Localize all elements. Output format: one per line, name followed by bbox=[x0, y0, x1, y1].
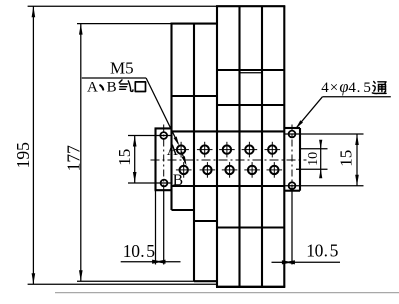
hanzi qi (air) bbox=[119, 80, 133, 92]
svg-text:A: A bbox=[87, 79, 98, 95]
thin double line below divider middle column bbox=[240, 72, 263, 74]
plate left edge extension down bbox=[155, 190, 157, 264]
left 10.5 dimension line left part bbox=[121, 261, 155, 263]
arrowhead left15 bottom bbox=[133, 172, 137, 183]
arrowhead 177 bottom bbox=[79, 270, 83, 281]
station2 bottom y=281.2 bbox=[194, 280, 217, 282]
plate horizontal centerline bbox=[151, 159, 307, 161]
leader to port B bbox=[182, 152, 186, 164]
base plate bottom-right edge bbox=[284, 190, 300, 192]
station1/2 boundary vertical bbox=[193, 24, 195, 282]
base plate left edge bbox=[154, 128, 156, 190]
right 15 extension bottom through hole bbox=[285, 185, 364, 187]
phi4.5 label underline bbox=[322, 96, 390, 98]
port A1 bbox=[173, 142, 189, 158]
svg-text:15: 15 bbox=[115, 149, 134, 166]
valve bodies rear edge y=186 bbox=[172, 185, 285, 187]
stations 1-2 top edge bbox=[171, 23, 219, 25]
M5 label underline bbox=[82, 77, 146, 79]
arrowhead 177 top bbox=[79, 24, 83, 35]
valve bodies front edge y=131.4 bbox=[172, 130, 285, 132]
port B5 bbox=[267, 162, 283, 178]
hanzi tong (through) bbox=[372, 82, 386, 94]
faint sheet border line bbox=[55, 292, 399, 294]
svg-text:B: B bbox=[173, 172, 183, 189]
stations 1-2 divider y=96 bbox=[172, 95, 218, 97]
dimension line 177 bbox=[80, 24, 82, 282]
svg-text:10.5: 10.5 bbox=[306, 240, 338, 260]
right 10 extension A row bbox=[301, 148, 328, 150]
port B3 bbox=[222, 162, 238, 178]
left 15 extension bottom through hole bbox=[128, 182, 172, 184]
svg-text:B: B bbox=[107, 79, 117, 95]
arrowhead left10.5 left bbox=[155, 260, 166, 264]
station1 left edge vertical bbox=[170, 24, 172, 210]
arrowhead 195 top bbox=[32, 6, 36, 17]
stack right edge vertical x=284.3 bbox=[283, 6, 285, 287]
right 15 dimension line bbox=[356, 134, 358, 186]
leader to corner hole bbox=[297, 97, 323, 128]
corner hole top-left bbox=[160, 132, 167, 139]
right 10.5 dimension line left part bbox=[272, 261, 284, 263]
leader to port A bbox=[146, 78, 178, 144]
corner hole top-right bbox=[289, 131, 296, 138]
ideographic comma in label bbox=[100, 85, 103, 89]
stack divider y=105 bbox=[217, 104, 284, 106]
right holes vertical centerline bbox=[291, 125, 293, 191]
station boundary vertical x=239.5 bbox=[238, 6, 240, 287]
arrowhead right15 top bbox=[355, 134, 359, 145]
stack divider y=70 bbox=[217, 69, 284, 71]
port B4 bbox=[244, 162, 260, 178]
left holes vertical centerline bbox=[163, 125, 165, 191]
right holes centerline extension down bbox=[291, 191, 293, 265]
arrowhead leader hole bbox=[294, 120, 303, 129]
port B1 bbox=[176, 162, 192, 178]
valve stack stations 3-5 outline top edge bbox=[216, 5, 285, 7]
left 15 extension top through hole bbox=[128, 135, 172, 137]
arrowhead right15 bottom bbox=[355, 175, 359, 186]
left 15 dimension line bbox=[134, 136, 136, 184]
svg-text:195: 195 bbox=[13, 142, 33, 169]
arrowhead 195 bottom bbox=[32, 273, 36, 284]
arrowhead right10 bottom bbox=[319, 169, 322, 179]
svg-text:4×φ4.5: 4×φ4.5 bbox=[321, 77, 371, 96]
corner hole bottom-right bbox=[289, 182, 296, 189]
extension line bottom for 177 bbox=[77, 280, 194, 282]
station2 divider y=221 bbox=[194, 220, 217, 222]
stack divider y=227.5 bbox=[217, 226, 284, 228]
stack bottom edge bbox=[216, 286, 285, 288]
port A3 bbox=[219, 142, 235, 158]
left 10.5 dimension line right part bbox=[163, 261, 181, 263]
base plate top-left edge bbox=[155, 127, 172, 129]
arrowhead right10.5 right bbox=[282, 260, 293, 264]
base plate top-right edge bbox=[284, 127, 300, 129]
arrowhead leader A bbox=[174, 136, 181, 146]
svg-text:A: A bbox=[167, 142, 179, 159]
station boundary vertical x=217 bbox=[216, 6, 218, 287]
arrowhead leader B bbox=[182, 156, 188, 166]
port B2 bbox=[200, 162, 216, 178]
port A4 bbox=[242, 142, 258, 158]
right 10 extension B row bbox=[296, 168, 328, 170]
arrowhead right10 top bbox=[319, 140, 322, 150]
extension line bottom for 195 bbox=[28, 283, 217, 285]
station boundary vertical x=262 bbox=[261, 6, 263, 287]
dimension line 195 bbox=[32, 6, 34, 284]
svg-text:177: 177 bbox=[64, 145, 84, 172]
right 15 extension top through hole bbox=[285, 133, 364, 135]
arrowhead left10.5 right bbox=[152, 260, 163, 264]
extension line top for 177 bbox=[77, 23, 172, 25]
left holes centerline extension down bbox=[163, 190, 165, 265]
base plate bottom-left edge bbox=[155, 189, 172, 191]
right 10.5 dimension line right part bbox=[293, 261, 340, 263]
arrowhead right10.5 left bbox=[284, 260, 295, 264]
arrowhead left15 top bbox=[133, 136, 137, 147]
hanzi kou (mouth/port) bbox=[135, 82, 145, 92]
svg-text:15: 15 bbox=[337, 150, 356, 167]
port A2 bbox=[197, 142, 213, 158]
extension line top for 195 bbox=[28, 5, 216, 7]
right 10 dimension line bbox=[320, 141, 322, 178]
base plate right edge bbox=[299, 128, 301, 191]
port A5 bbox=[265, 142, 281, 158]
svg-text:10: 10 bbox=[306, 152, 321, 166]
corner hole bottom-left bbox=[161, 180, 168, 187]
station1 bottom y=210 bbox=[172, 209, 195, 211]
svg-text:M5: M5 bbox=[110, 58, 134, 77]
svg-text:10.5: 10.5 bbox=[123, 241, 156, 261]
